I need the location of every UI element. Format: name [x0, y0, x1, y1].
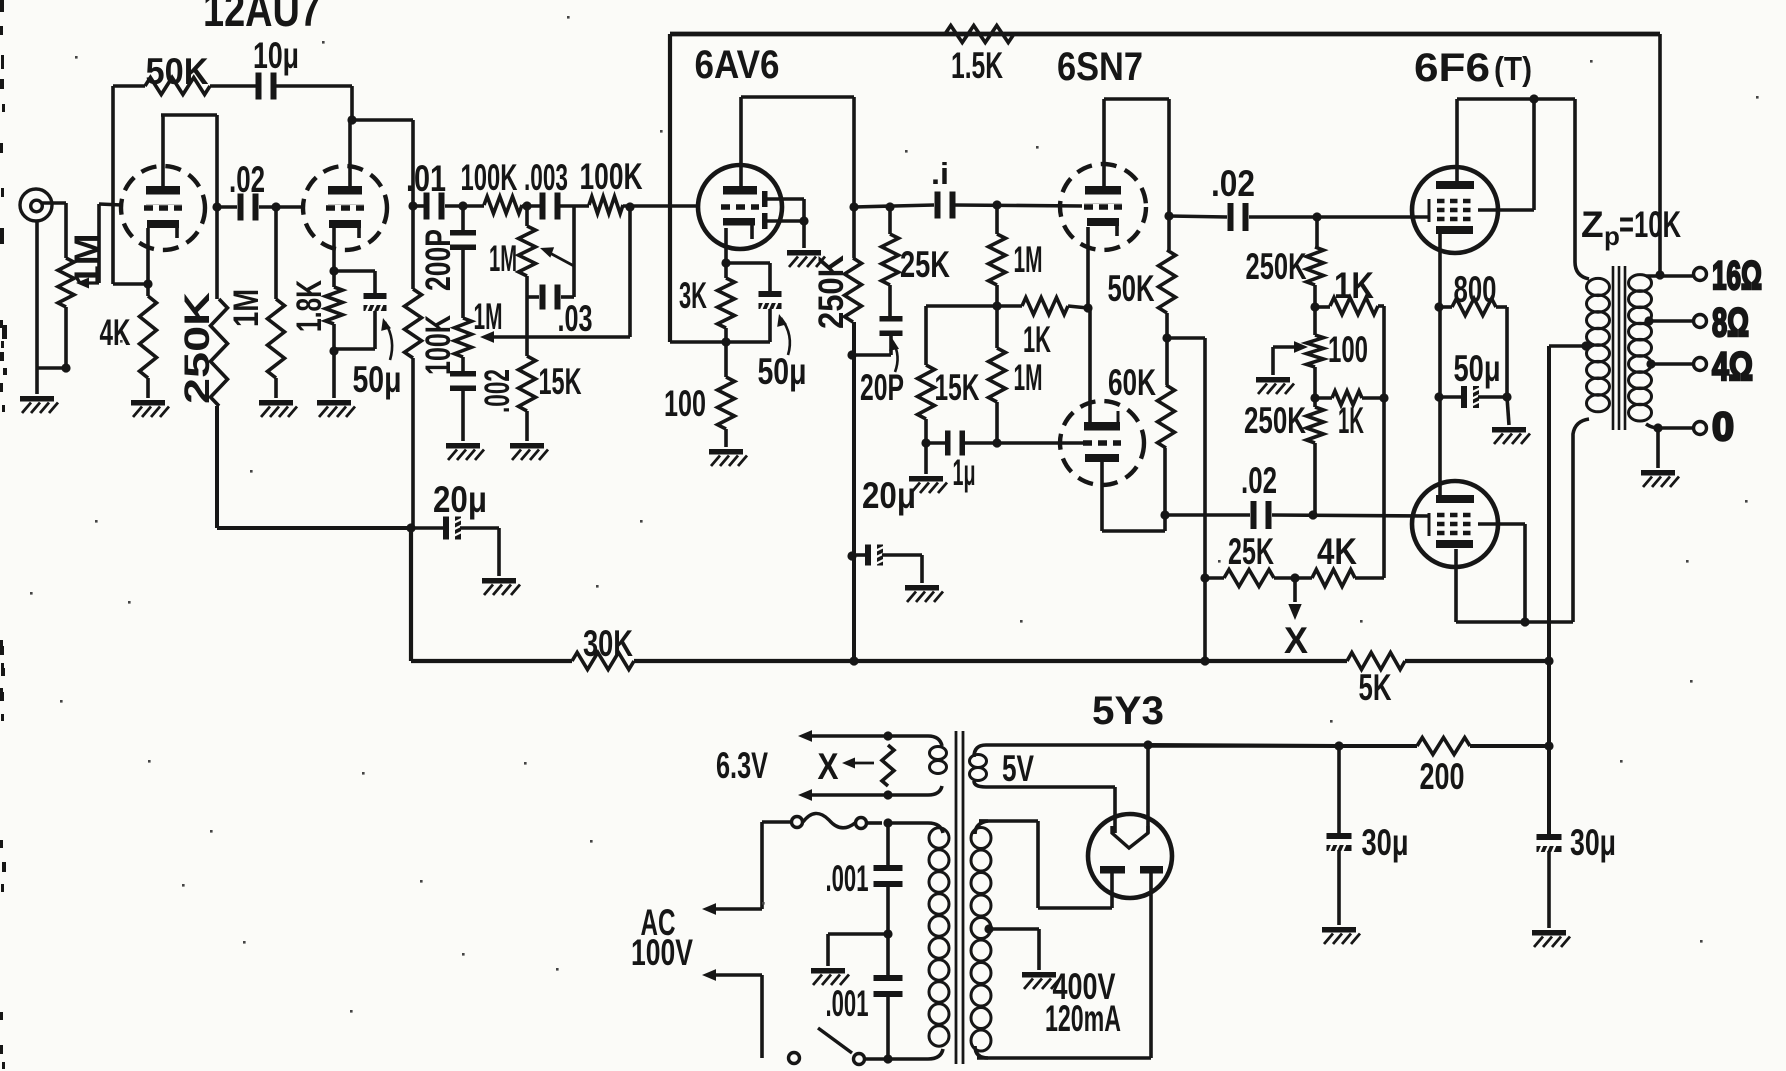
svg-text:X: X [1284, 620, 1308, 661]
svg-text:250K: 250K [178, 292, 217, 404]
svg-text:4K: 4K [1317, 531, 1357, 572]
svg-text:.002: .002 [478, 369, 517, 413]
svg-text:5Y3: 5Y3 [1092, 689, 1164, 733]
svg-text:Z: Z [1581, 204, 1604, 245]
svg-text:15K: 15K [539, 361, 582, 402]
svg-text:30μ: 30μ [1362, 822, 1409, 863]
svg-text:100V: 100V [631, 932, 693, 973]
svg-text:10μ: 10μ [253, 35, 299, 76]
svg-text:6F6: 6F6 [1414, 46, 1490, 90]
svg-text:1K: 1K [1338, 400, 1364, 441]
svg-text:8Ω: 8Ω [1712, 301, 1749, 345]
svg-text:1M: 1M [474, 296, 503, 337]
svg-text:4Ω: 4Ω [1712, 345, 1753, 389]
svg-text:6.3V: 6.3V [716, 745, 768, 786]
svg-text:120mA: 120mA [1045, 998, 1121, 1039]
svg-text:1.8K: 1.8K [290, 280, 329, 332]
svg-text:1K: 1K [1023, 319, 1051, 360]
svg-text:1M: 1M [227, 289, 266, 327]
svg-text:20μ: 20μ [433, 479, 487, 520]
svg-text:=10K: =10K [1619, 204, 1681, 245]
svg-text:25K: 25K [900, 244, 950, 285]
svg-text:.003: .003 [524, 157, 568, 198]
svg-text:1.5K: 1.5K [951, 45, 1003, 86]
svg-text:p: p [1604, 221, 1620, 251]
svg-text:5K: 5K [1359, 667, 1392, 708]
svg-text:200: 200 [1420, 756, 1465, 797]
svg-text:800: 800 [1454, 269, 1497, 310]
svg-text:20μ: 20μ [862, 475, 916, 516]
svg-text:0: 0 [1712, 405, 1734, 449]
svg-text:30μ: 30μ [1570, 822, 1616, 863]
svg-text:100K: 100K [419, 315, 458, 375]
svg-text:60K: 60K [1108, 362, 1156, 403]
svg-text:20P: 20P [860, 367, 904, 408]
svg-text:6SN7: 6SN7 [1057, 45, 1143, 89]
svg-text:50μ: 50μ [758, 351, 807, 392]
svg-text:4K: 4K [100, 312, 131, 353]
svg-text:50μ: 50μ [1454, 348, 1501, 389]
svg-text:.001: .001 [826, 983, 869, 1024]
svg-text:100: 100 [1328, 329, 1368, 370]
svg-text:250K: 250K [1246, 246, 1307, 287]
svg-text:100K: 100K [580, 156, 643, 197]
svg-text:.02: .02 [229, 159, 265, 200]
svg-text:100: 100 [664, 383, 706, 424]
svg-text:200P: 200P [419, 229, 458, 291]
svg-text:1M: 1M [68, 234, 107, 287]
svg-text:1M: 1M [1014, 239, 1043, 280]
svg-text:50μ: 50μ [353, 359, 402, 400]
svg-text:.01: .01 [406, 158, 446, 199]
svg-text:12AU7: 12AU7 [203, 0, 321, 37]
svg-text:16Ω: 16Ω [1712, 254, 1762, 298]
svg-text:.i: .i [931, 156, 949, 191]
svg-text:.001: .001 [826, 858, 869, 899]
svg-text:50K: 50K [146, 51, 209, 92]
svg-text:250K: 250K [812, 255, 851, 329]
svg-text:15K: 15K [935, 367, 980, 408]
svg-text:.02: .02 [1211, 163, 1255, 204]
svg-text:250K: 250K [1244, 400, 1306, 441]
svg-text:30K: 30K [583, 623, 633, 664]
svg-text:.03: .03 [558, 298, 593, 339]
svg-text:5V: 5V [1002, 748, 1034, 789]
svg-text:6AV6: 6AV6 [695, 43, 780, 87]
svg-text:100K: 100K [461, 157, 518, 198]
svg-text:X: X [818, 746, 839, 787]
svg-text:1K: 1K [1334, 265, 1374, 306]
svg-text:50K: 50K [1108, 268, 1155, 309]
svg-text:1M: 1M [1014, 357, 1043, 398]
svg-text:1μ: 1μ [953, 452, 976, 493]
svg-text:.02: .02 [1241, 460, 1277, 501]
svg-text:1M: 1M [489, 238, 517, 279]
svg-text:3K: 3K [679, 275, 707, 316]
svg-text:(T): (T) [1494, 50, 1532, 87]
svg-text:25K: 25K [1228, 531, 1274, 572]
